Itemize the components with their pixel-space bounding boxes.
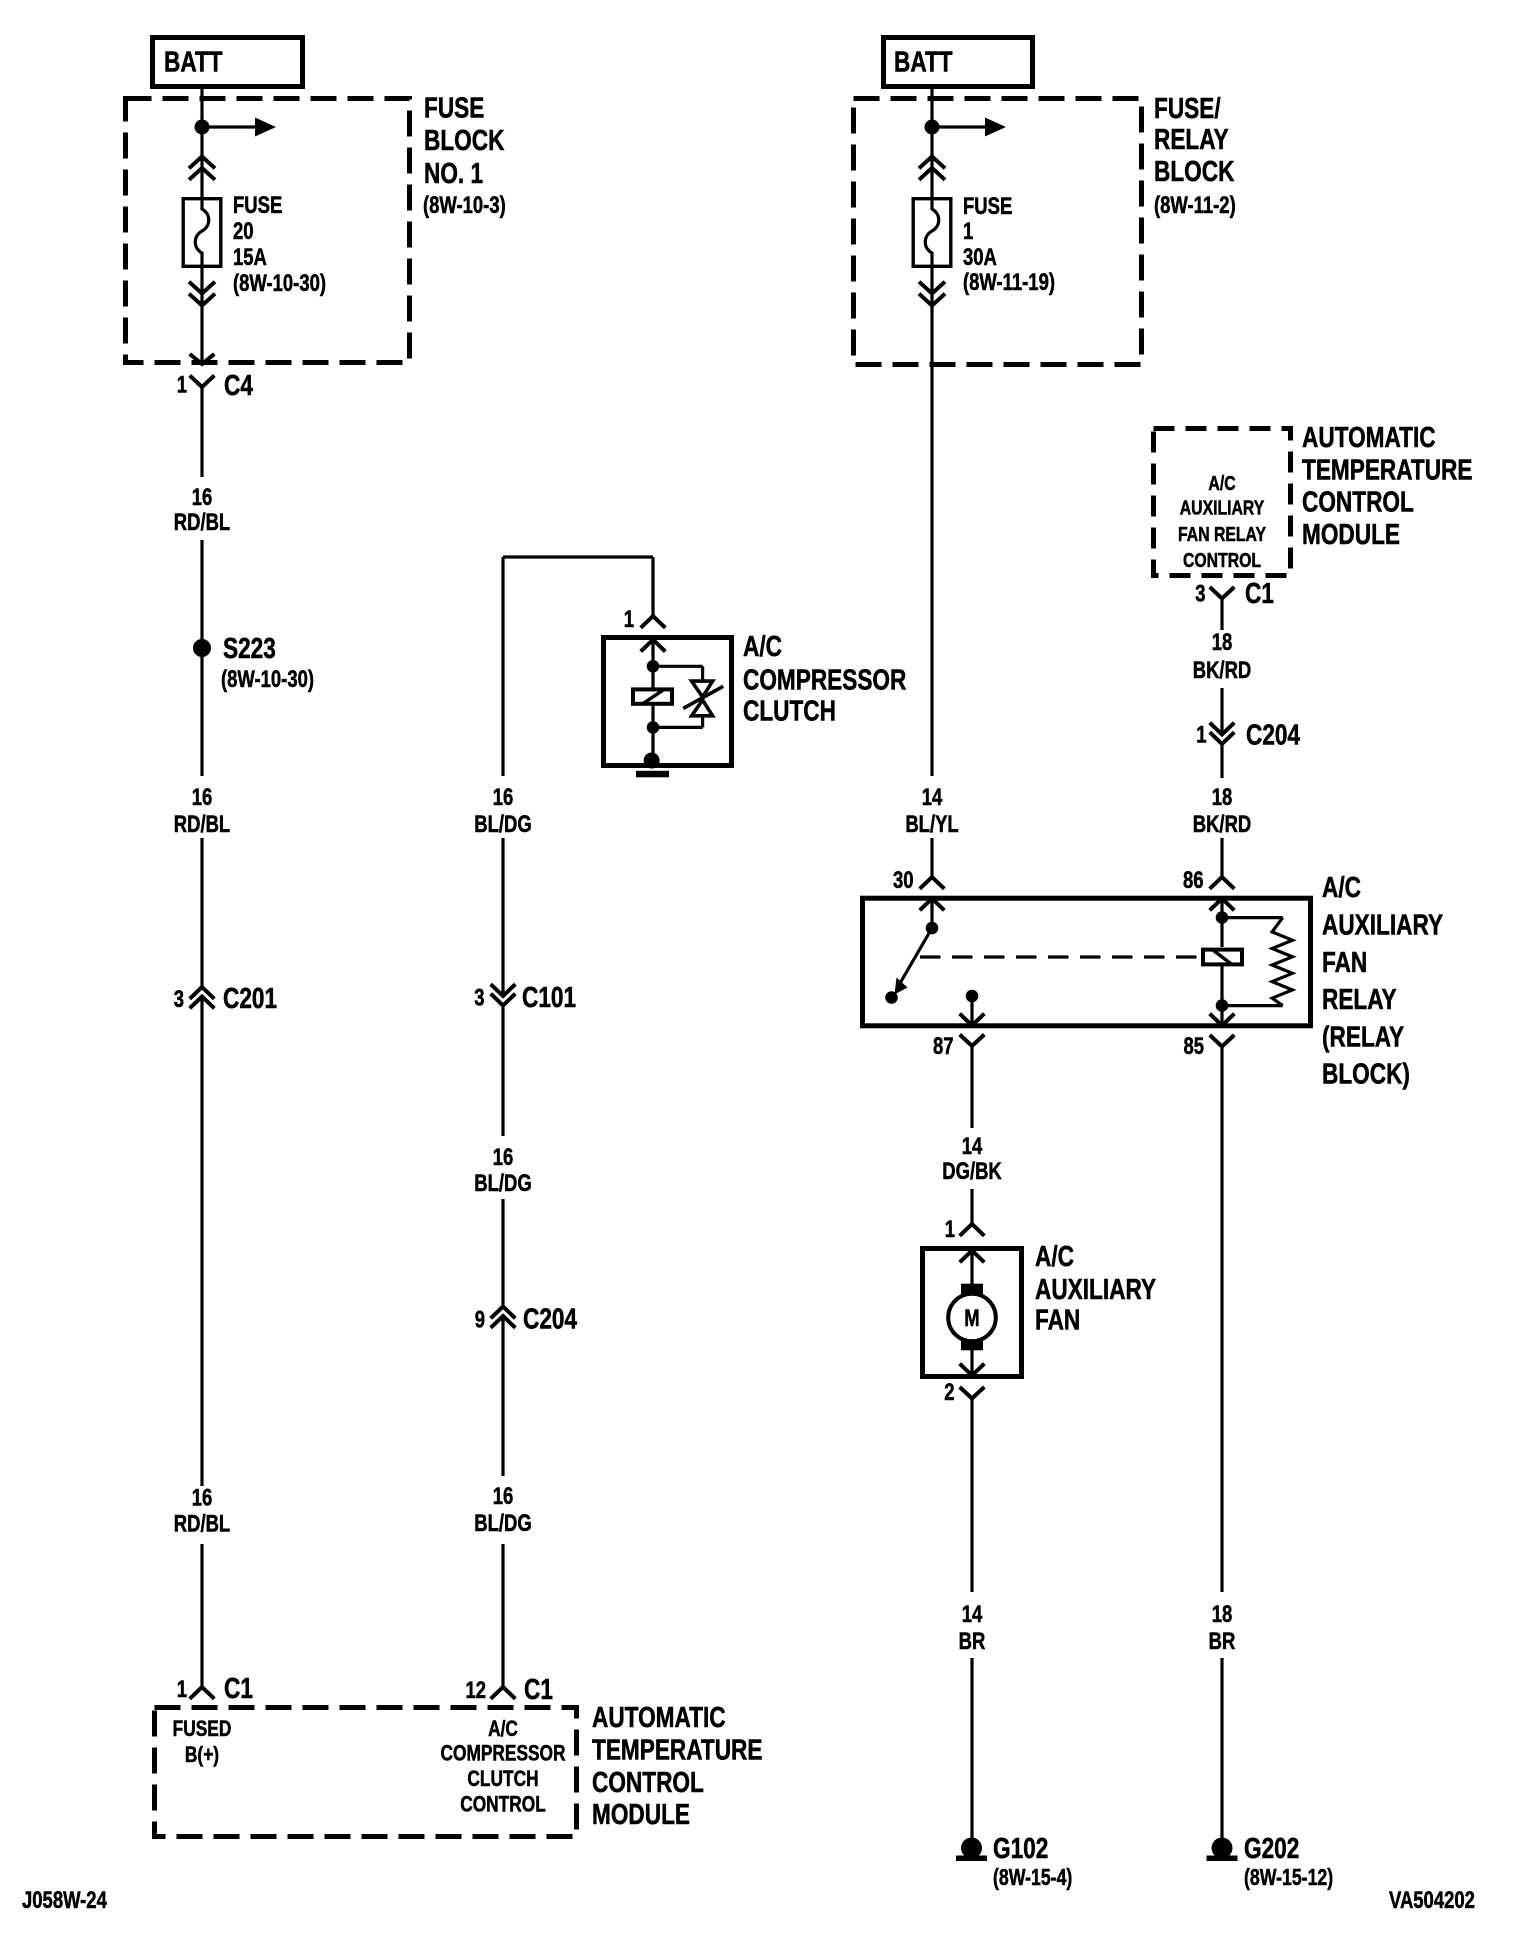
svg-text:RELAY: RELAY	[1154, 122, 1229, 155]
svg-text:A/C: A/C	[743, 629, 782, 662]
svg-text:FUSE: FUSE	[233, 192, 282, 219]
svg-text:BL/DG: BL/DG	[474, 811, 531, 838]
svg-text:M: M	[964, 1305, 979, 1332]
svg-text:18: 18	[1212, 1601, 1233, 1628]
svg-text:BR: BR	[1209, 1628, 1236, 1655]
svg-text:14: 14	[962, 1601, 983, 1628]
svg-text:(8W-10-30): (8W-10-30)	[221, 666, 314, 693]
svg-text:(8W-15-4): (8W-15-4)	[993, 1865, 1072, 1891]
svg-text:CONTROL: CONTROL	[592, 1765, 704, 1798]
svg-text:FUSED: FUSED	[173, 1717, 232, 1742]
svg-text:FAN: FAN	[1322, 945, 1367, 978]
svg-text:(8W-10-3): (8W-10-3)	[423, 192, 506, 219]
svg-text:CONTROL: CONTROL	[1183, 548, 1261, 572]
svg-text:G202: G202	[1244, 1831, 1299, 1864]
svg-text:1: 1	[1196, 721, 1206, 748]
svg-text:16: 16	[192, 484, 213, 511]
svg-text:CONTROL: CONTROL	[1302, 485, 1414, 518]
svg-text:AUXILIARY: AUXILIARY	[1322, 908, 1443, 941]
svg-text:C1: C1	[1245, 576, 1274, 609]
svg-text:16: 16	[192, 784, 213, 811]
svg-text:18: 18	[1212, 629, 1233, 656]
svg-text:BLOCK: BLOCK	[1154, 154, 1235, 187]
svg-text:CONTROL: CONTROL	[460, 1792, 546, 1817]
svg-text:C201: C201	[223, 981, 277, 1014]
svg-text:C4: C4	[224, 368, 253, 401]
svg-text:9: 9	[475, 1306, 485, 1333]
svg-text:C101: C101	[522, 980, 576, 1013]
svg-text:(8W-11-19): (8W-11-19)	[963, 269, 1055, 296]
svg-text:TEMPERATURE: TEMPERATURE	[1302, 453, 1472, 486]
svg-text:30A: 30A	[963, 244, 997, 271]
svg-text:VA504202: VA504202	[1389, 1887, 1475, 1914]
svg-text:AUXILIARY: AUXILIARY	[1180, 496, 1264, 520]
svg-text:MODULE: MODULE	[592, 1797, 690, 1830]
svg-text:2: 2	[944, 1379, 954, 1406]
svg-text:C1: C1	[524, 1672, 553, 1705]
svg-text:(8W-10-30): (8W-10-30)	[233, 270, 326, 297]
svg-text:3: 3	[1195, 580, 1205, 607]
svg-text:1: 1	[624, 606, 634, 633]
svg-text:1: 1	[963, 218, 973, 245]
svg-text:20: 20	[233, 218, 254, 245]
svg-text:87: 87	[933, 1033, 954, 1060]
svg-text:BL/DG: BL/DG	[474, 1510, 531, 1537]
svg-text:C204: C204	[523, 1302, 578, 1335]
svg-text:G102: G102	[993, 1831, 1048, 1864]
svg-text:A/C: A/C	[488, 1717, 518, 1742]
svg-text:14: 14	[962, 1133, 983, 1160]
svg-text:BL/DG: BL/DG	[474, 1170, 531, 1197]
svg-text:3: 3	[174, 986, 184, 1013]
svg-text:AUTOMATIC: AUTOMATIC	[1302, 420, 1436, 453]
svg-text:AUXILIARY: AUXILIARY	[1035, 1272, 1156, 1305]
svg-text:16: 16	[192, 1484, 213, 1511]
svg-text:FUSE: FUSE	[963, 193, 1012, 220]
svg-text:CLUTCH: CLUTCH	[467, 1767, 538, 1792]
svg-text:16: 16	[493, 784, 514, 811]
svg-text:FAN RELAY: FAN RELAY	[1178, 522, 1266, 546]
svg-text:RD/BL: RD/BL	[174, 509, 230, 536]
svg-text:DG/BK: DG/BK	[942, 1158, 1002, 1185]
svg-text:COMPRESSOR: COMPRESSOR	[743, 663, 907, 696]
svg-text:NO. 1: NO. 1	[424, 156, 483, 189]
svg-text:85: 85	[1183, 1033, 1204, 1060]
svg-text:18: 18	[1212, 784, 1233, 811]
svg-text:16: 16	[493, 1144, 514, 1171]
svg-text:TEMPERATURE: TEMPERATURE	[592, 1733, 762, 1766]
svg-text:16: 16	[493, 1483, 514, 1510]
svg-text:MODULE: MODULE	[1302, 517, 1400, 550]
svg-text:AUTOMATIC: AUTOMATIC	[592, 1700, 726, 1733]
svg-text:C1: C1	[224, 1671, 253, 1704]
svg-text:14: 14	[922, 784, 943, 811]
svg-text:C204: C204	[1246, 718, 1301, 751]
svg-text:BLOCK: BLOCK	[424, 123, 505, 156]
svg-text:RELAY: RELAY	[1322, 982, 1397, 1015]
svg-text:(RELAY: (RELAY	[1322, 1020, 1404, 1053]
svg-text:COMPRESSOR: COMPRESSOR	[440, 1741, 565, 1766]
svg-text:A/C: A/C	[1035, 1239, 1074, 1272]
svg-text:15A: 15A	[233, 244, 267, 271]
svg-text:86: 86	[1183, 867, 1204, 894]
svg-text:RD/BL: RD/BL	[174, 811, 230, 838]
svg-text:(8W-11-2): (8W-11-2)	[1154, 192, 1236, 219]
svg-text:FUSE/: FUSE/	[1154, 91, 1221, 124]
svg-text:FUSE: FUSE	[424, 91, 484, 124]
svg-text:1: 1	[177, 1676, 187, 1703]
svg-text:A/C: A/C	[1208, 471, 1235, 495]
svg-text:CLUTCH: CLUTCH	[743, 694, 836, 727]
svg-text:1: 1	[177, 371, 187, 398]
svg-text:BR: BR	[959, 1628, 986, 1655]
svg-text:BL/YL: BL/YL	[905, 811, 958, 838]
svg-text:BATT: BATT	[164, 45, 223, 78]
svg-text:FAN: FAN	[1035, 1303, 1080, 1336]
svg-text:BK/RD: BK/RD	[1193, 657, 1251, 684]
svg-text:A/C: A/C	[1322, 870, 1361, 903]
svg-text:BLOCK): BLOCK)	[1322, 1057, 1410, 1090]
svg-text:S223: S223	[223, 631, 276, 664]
svg-text:3: 3	[474, 984, 484, 1011]
svg-text:1: 1	[945, 1216, 955, 1243]
svg-text:30: 30	[893, 867, 914, 894]
svg-text:BK/RD: BK/RD	[1193, 811, 1251, 838]
svg-text:(8W-15-12): (8W-15-12)	[1244, 1865, 1333, 1891]
svg-text:12: 12	[465, 1677, 486, 1704]
svg-text:RD/BL: RD/BL	[174, 1510, 230, 1537]
svg-text:B(+): B(+)	[185, 1743, 219, 1768]
svg-text:J058W-24: J058W-24	[22, 1887, 107, 1914]
svg-text:BATT: BATT	[894, 45, 953, 78]
